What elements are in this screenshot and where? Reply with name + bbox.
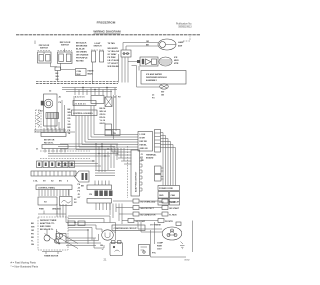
- svg-text:WH: WH: [31, 227, 35, 229]
- start device caption: [152, 253, 157, 255]
- timer motor tick: [47, 229, 57, 239]
- JB note: [88, 70, 94, 76]
- pin ticks row: [39, 190, 69, 197]
- compressor ground: [180, 242, 185, 249]
- svg-text:* = Non-Illustrated Parts: * = Non-Illustrated Parts: [11, 264, 39, 268]
- svg-text:CON: CON: [77, 71, 82, 73]
- svg-text:DEFROST TIMER: DEFROST TIMER: [40, 220, 57, 222]
- svg-text:OR ORANGE: OR ORANGE: [76, 53, 89, 56]
- svg-text:SWITCH: SWITCH: [61, 45, 69, 47]
- freezer lamp L1: [158, 39, 176, 50]
- dashed corner: [183, 37, 190, 42]
- stack feed wires down: [57, 204, 66, 223]
- svg-text:COMP: COMP: [157, 243, 164, 245]
- light switch S1 label: [39, 45, 50, 50]
- control area dashed edge: [127, 146, 129, 198]
- solenoid tag: [161, 92, 165, 97]
- bottom boxes note: [74, 199, 77, 204]
- bus drops: [75, 88, 115, 98]
- junction box JB: [76, 69, 87, 76]
- compressor caption strip: [112, 225, 145, 231]
- condenser fan motor M4: [102, 230, 114, 240]
- light switch S1: [38, 52, 52, 63]
- svg-text:ADAPTIVE DEFROST: ADAPTIVE DEFROST: [135, 171, 138, 192]
- svg-text:CONTROL PANEL: CONTROL PANEL: [38, 187, 56, 190]
- svg-text:OR START: OR START: [169, 207, 180, 210]
- svg-text:# = Fast Moving Parts: # = Fast Moving Parts: [11, 260, 37, 264]
- svg-text:ICE AND WATER: ICE AND WATER: [146, 73, 162, 76]
- evap bottom rail 2: [34, 131, 75, 133]
- junction dots: [74, 87, 108, 231]
- timer cam circle small: [54, 239, 58, 243]
- wire J1 drop: [57, 71, 59, 82]
- svg-text:PR PURPLE: PR PURPLE: [76, 57, 88, 59]
- wires below heater: [47, 119, 59, 131]
- timer contact circle: [59, 234, 62, 237]
- evap fan motor M3: [44, 99, 53, 108]
- svg-text:CAB: CAB: [171, 194, 176, 197]
- start relay eared box: [110, 241, 123, 256]
- motor side tick: [114, 231, 116, 233]
- fifth label row: [150, 222, 181, 227]
- svg-text:L1 BK: L1 BK: [140, 134, 146, 136]
- svg-text:N WH: N WH: [140, 138, 146, 140]
- connector cells row: [89, 191, 113, 197]
- cross verticals: [96, 144, 117, 172]
- svg-text:DISPENSER MODULE: DISPENSER MODULE: [146, 77, 167, 79]
- side text column: [78, 183, 82, 199]
- start device box: [139, 245, 150, 256]
- bus wire 3: [66, 91, 112, 93]
- strip caption box: [158, 186, 180, 191]
- svg-text:WH: WH: [68, 112, 72, 114]
- timer top labels: [39, 208, 61, 211]
- dashed divider 1: [40, 150, 90, 152]
- svg-text:ASSEMBLY: ASSEMBLY: [146, 79, 158, 82]
- run capacitor box: [56, 234, 66, 244]
- connector J1 stack: [55, 67, 61, 81]
- small relay box a: [105, 124, 112, 130]
- svg-text:YL RUN: YL RUN: [169, 215, 177, 217]
- lamp note text: [178, 41, 184, 48]
- svg-text:LAMP: LAMP: [178, 41, 184, 44]
- svg-text:5995519913: 5995519913: [178, 25, 192, 28]
- dashed divider 2: [40, 158, 90, 160]
- svg-text:BOARD: BOARD: [146, 156, 154, 159]
- stack label: [36, 149, 39, 151]
- icemaker U1: [140, 57, 158, 66]
- timer arm arrow: [45, 234, 61, 245]
- evap bottom rail: [34, 129, 66, 131]
- compressor note: [157, 243, 164, 251]
- svg-text:WIRING DIAGRAM: WIRING DIAGRAM: [93, 30, 121, 34]
- center bundle: [76, 106, 94, 150]
- wire color legend column 2: [108, 42, 120, 68]
- svg-text:WH WHITE: WH WHITE: [108, 48, 119, 50]
- wire from S3: [92, 62, 94, 84]
- wire tag column: [100, 107, 107, 125]
- fan motor feed elbows: [94, 223, 116, 249]
- wire from S2: [61, 63, 76, 70]
- tb caption: [146, 153, 157, 159]
- svg-text:FRS23ZRGM: FRS23ZRGM: [97, 20, 116, 24]
- riser tag: [59, 97, 62, 105]
- svg-text:PTC: PTC: [152, 253, 157, 255]
- defrost thermostat dashed box: [36, 110, 42, 132]
- right elbow wires from terminal strip: [161, 133, 176, 186]
- bottom boxes pair: [38, 197, 72, 206]
- outlet block r2c1: [158, 199, 169, 206]
- svg-text:POWER CORD: POWER CORD: [159, 188, 174, 190]
- svg-text:VT VIOLET: VT VIOLET: [108, 63, 119, 65]
- dispenser solenoid oval: [160, 84, 169, 89]
- wire to lamp: [123, 43, 158, 51]
- tick rows under bundle: [95, 171, 115, 176]
- svg-text:BL BLUE: BL BLUE: [76, 48, 85, 50]
- svg-text:MAIN: MAIN: [88, 73, 94, 76]
- node top tick: [34, 41, 36, 45]
- diagonal wire 2: [56, 236, 78, 249]
- svg-text:BK-14: BK-14: [100, 107, 107, 110]
- crossed box: [105, 97, 112, 107]
- svg-text:BK RELAY: BK RELAY: [169, 201, 180, 204]
- svg-text:PINK: PINK: [39, 209, 44, 211]
- mullion switch S3 label: [94, 43, 102, 48]
- evap risers: [62, 96, 74, 132]
- icemaker feed blob: [137, 60, 140, 63]
- svg-text:CAP: CAP: [57, 238, 62, 241]
- outlet block r1c2: [170, 192, 180, 199]
- overload label row 1: [133, 199, 180, 204]
- bus wire 2: [62, 89, 117, 91]
- svg-text:40W: 40W: [178, 45, 182, 48]
- svg-text:RD RED: RD RED: [76, 60, 84, 62]
- svg-text:GND GN: GND GN: [140, 148, 149, 150]
- svg-text:TERMINAL: TERMINAL: [146, 153, 157, 156]
- cabinet dashed boundary: [36, 80, 118, 82]
- svg-text:LB LT BLUE: LB LT BLUE: [108, 60, 120, 62]
- svg-text:WH-14: WH-14: [100, 110, 107, 113]
- wire from S1: [51, 63, 58, 67]
- fuse F1: [121, 50, 131, 57]
- connector bar upper: [41, 128, 66, 137]
- svg-text:BLK: BLK: [77, 74, 82, 76]
- svg-text:4 3 2 1 6 5: 4 3 2 1 6 5: [75, 96, 85, 99]
- svg-text:SWITCH: SWITCH: [40, 48, 48, 50]
- connector bar lower: [42, 145, 68, 153]
- wire into dispenser: [138, 66, 140, 71]
- timer top bracket: [38, 211, 66, 215]
- solenoid wire: [137, 86, 160, 88]
- svg-text:PK PINK: PK PINK: [108, 57, 117, 59]
- nested corner wires: [66, 234, 101, 246]
- svg-text:TN TAN: TN TAN: [108, 42, 116, 45]
- node tag: [152, 95, 155, 100]
- outlet block r2c2: [170, 199, 180, 206]
- overload label row 2: [133, 206, 180, 211]
- svg-text:GY THERM: GY THERM: [150, 225, 161, 227]
- defrost timer dashed box: [38, 217, 68, 250]
- svg-text:OR-16: OR-16: [100, 114, 107, 116]
- svg-text:TIMER MOTOR: TIMER MOTOR: [44, 256, 59, 258]
- timer left wire tags: [31, 223, 35, 246]
- svg-text:YL-16: YL-16: [100, 120, 106, 122]
- terminal block TB1: [138, 132, 153, 152]
- icemaker note: [174, 57, 179, 65]
- light switch S1 dashed top: [38, 50, 52, 52]
- svg-text:SWITCH: SWITCH: [94, 46, 102, 48]
- connector row of cells: [37, 161, 75, 168]
- bus wire 1: [62, 87, 117, 89]
- svg-text:BK BLACK: BK BLACK: [76, 41, 87, 44]
- cabinet dashed boundary 2: [36, 82, 118, 84]
- svg-text:PK MTR: PK MTR: [165, 221, 173, 223]
- timer bottom bracket: [42, 252, 62, 255]
- svg-text:BR BROWN: BR BROWN: [76, 45, 88, 47]
- door switch S2 dashed top: [58, 50, 73, 52]
- svg-text:09/02: 09/02: [184, 259, 190, 261]
- door switch S2: [58, 49, 73, 64]
- connector pair a: [68, 221, 85, 226]
- tb elbow wires: [76, 135, 138, 150]
- ground symbol: [101, 245, 104, 250]
- svg-text:GND: GND: [159, 195, 164, 197]
- overload label row 4: [128, 219, 173, 224]
- stack mid text: [44, 140, 55, 145]
- svg-text:C GL: C GL: [33, 181, 39, 183]
- svg-text:DEF RD: DEF RD: [140, 141, 148, 143]
- svg-text:ADAPTIVE CTL: ADAPTIVE CTL: [40, 222, 55, 225]
- svg-text:FAN BL: FAN BL: [140, 144, 148, 147]
- hatched rail 1: [31, 171, 76, 176]
- wire elbow to icemaker: [128, 62, 140, 88]
- door switch S2 label: [60, 42, 71, 47]
- compressor feed wires: [138, 221, 193, 258]
- pin tick marks: [114, 97, 121, 99]
- motor terminal blob: [41, 101, 44, 106]
- overload label row 3: [133, 212, 177, 217]
- signal strip 1: [73, 101, 96, 106]
- svg-text:RD GN YL: RD GN YL: [44, 143, 54, 145]
- elbow wires to condenser fan: [66, 216, 116, 244]
- defrost heater hatched bar: [46, 113, 59, 119]
- diagonal wire 1: [56, 231, 78, 244]
- svg-text:115V: 115V: [157, 249, 162, 251]
- svg-text:GN COMP: GN COMP: [136, 221, 146, 223]
- icemaker motor M1: [159, 57, 172, 66]
- svg-text:COMPRESSOR CIRCUIT: COMPRESSOR CIRCUIT: [114, 228, 138, 230]
- wire labels: [146, 41, 150, 47]
- side wire: [68, 190, 70, 196]
- wire color legend column 1: [76, 41, 89, 62]
- svg-text:RSIR: RSIR: [157, 246, 162, 248]
- evap fan enclosure: [44, 94, 58, 126]
- svg-text:2 1 8 4 6 3 5: 2 1 8 4 6 3 5: [75, 102, 87, 105]
- strip1 side box: [91, 96, 104, 104]
- relay K2: [155, 175, 164, 182]
- svg-text:W-B WH-BK: W-B WH-BK: [108, 66, 120, 68]
- compressor oval: [162, 227, 182, 240]
- svg-text:MKR: MKR: [174, 60, 179, 62]
- ice chute connector pentagon: [75, 171, 90, 182]
- elbow wires into control: [112, 148, 132, 164]
- dispenser module rect: [141, 71, 186, 85]
- adaptive control board: [131, 150, 142, 196]
- svg-text:8HR 21MIN: 8HR 21MIN: [40, 226, 51, 228]
- timer cam circle: [44, 235, 50, 241]
- svg-text:YL YELLOW: YL YELLOW: [108, 51, 120, 53]
- tb side tags: [141, 154, 145, 162]
- small relay box b: [105, 130, 112, 136]
- connector block bar lower: [87, 199, 112, 211]
- svg-text:BK WH OR: BK WH OR: [44, 140, 55, 142]
- wire tag dark column: [68, 109, 72, 135]
- svg-text:GY GRAY: GY GRAY: [108, 53, 118, 56]
- signal strip 2: [72, 110, 98, 116]
- header rule: [16, 34, 200, 36]
- svg-text:MTR: MTR: [174, 63, 179, 65]
- long risers right: [114, 95, 117, 139]
- hatched rail 2: [36, 185, 72, 190]
- label bundle risers: [110, 204, 122, 225]
- labeled box row: [33, 181, 69, 183]
- svg-text:RD-16: RD-16: [100, 117, 107, 119]
- row connector wires: [113, 201, 162, 221]
- svg-text:GN GREEN: GN GREEN: [76, 51, 87, 53]
- timer inner caption: [40, 220, 57, 231]
- svg-text:WH PROTECT: WH PROTECT: [141, 208, 155, 210]
- wires from fuse down: [119, 54, 129, 83]
- svg-text:HARN: HARN: [88, 70, 94, 73]
- mullion switch S3: [91, 50, 105, 62]
- terminal block pin strip: [155, 130, 161, 153]
- svg-text:CONTROL HOUSING: CONTROL HOUSING: [73, 113, 93, 115]
- outlet block r1c1: [158, 192, 169, 199]
- cross wires grid: [48, 144, 118, 166]
- connector block bar upper: [87, 181, 112, 190]
- tb feed box: [112, 130, 120, 136]
- relay K1: [155, 166, 164, 174]
